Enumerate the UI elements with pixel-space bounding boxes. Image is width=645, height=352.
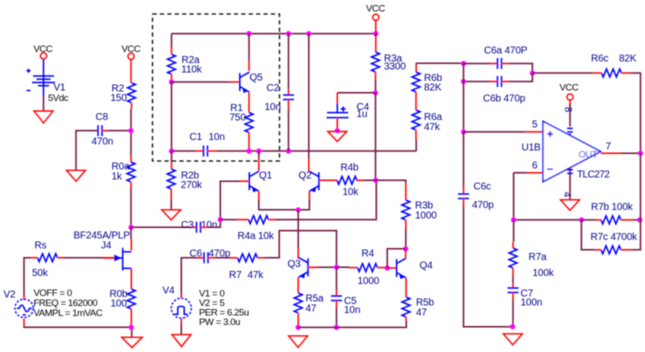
wire C7 to ground xyxy=(512,293,514,327)
value 110k xyxy=(181,65,202,76)
svg-text:1000: 1000 xyxy=(415,210,437,221)
svg-text:10n: 10n xyxy=(201,220,217,231)
label OUT xyxy=(579,149,598,159)
value 10n (C2) xyxy=(265,102,281,113)
op-amp V- pin xyxy=(567,167,573,200)
value 1u xyxy=(357,109,368,120)
svg-text:Q5: Q5 xyxy=(250,73,264,84)
value 750 xyxy=(230,112,247,123)
label C5 xyxy=(344,296,357,307)
svg-text:R7: R7 xyxy=(229,270,242,281)
wire C2 bottom xyxy=(288,100,290,152)
wire VCC to rail xyxy=(375,20,377,33)
node Q3 base/R4/C5 xyxy=(334,265,339,270)
wire pin6 node rail xyxy=(514,219,582,221)
resistor R5a xyxy=(294,293,302,313)
resistor R0a xyxy=(127,155,135,182)
svg-text:110k: 110k xyxy=(181,65,202,76)
label C6c xyxy=(474,182,491,193)
wire C5 to rail xyxy=(336,301,338,328)
svg-text:V4: V4 xyxy=(163,285,176,296)
label C6a 470P xyxy=(484,45,528,56)
wire C1 left stub xyxy=(196,150,204,152)
label Rs xyxy=(35,240,47,251)
node rail/C2 xyxy=(286,31,291,36)
resistor R4 xyxy=(358,264,378,272)
label C3 xyxy=(181,220,194,231)
wire Q4 collector xyxy=(405,249,407,258)
node C2/rail2 xyxy=(286,148,291,153)
wire V1 to ground xyxy=(43,96,45,111)
svg-text:R6c: R6c xyxy=(591,53,608,64)
wire Q3 emitter to R5a xyxy=(297,277,299,293)
resistor R3b xyxy=(402,200,410,220)
wire R0a to drain node xyxy=(130,182,132,227)
wire V2 to Rs xyxy=(24,258,38,301)
svg-text:1u: 1u xyxy=(357,109,368,120)
svg-text:6: 6 xyxy=(532,161,538,172)
wire pin5 xyxy=(464,131,544,133)
wire cap column xyxy=(463,64,465,132)
svg-text:47k: 47k xyxy=(424,122,441,133)
resistor Rs xyxy=(38,254,58,262)
node bottom-left rail xyxy=(129,325,134,330)
svg-text:C6c: C6c xyxy=(474,182,491,193)
pin number 6 xyxy=(532,161,538,172)
svg-text:R7b 100k: R7b 100k xyxy=(591,202,634,213)
wire R3b to node xyxy=(405,220,407,249)
wire V4 to ground xyxy=(180,318,182,334)
wire C6c to bottom xyxy=(464,199,513,327)
wire R6c to output column xyxy=(622,73,641,153)
label R4b xyxy=(341,162,359,173)
svg-text:50k: 50k xyxy=(32,268,49,279)
label R5a xyxy=(306,294,324,305)
label C7 xyxy=(521,289,534,300)
node R7b/R7c right xyxy=(637,217,642,222)
svg-text:10n: 10n xyxy=(265,102,281,113)
svg-text:C2: C2 xyxy=(267,83,280,94)
svg-text:PW = 3.0u: PW = 3.0u xyxy=(199,317,240,328)
pin number 4 xyxy=(561,192,572,198)
node diff-pair emitters xyxy=(296,207,301,212)
value V2 = 5 xyxy=(199,298,224,309)
node C3/R4a/Q1-base xyxy=(218,217,223,222)
resistor R3a xyxy=(372,34,380,93)
svg-text:470n: 470n xyxy=(92,137,114,148)
wire Q1 base xyxy=(220,181,249,219)
value 270k xyxy=(181,180,203,191)
ground (C7) xyxy=(503,334,522,345)
wire V4 to C6 xyxy=(181,258,204,298)
value 470n xyxy=(92,137,114,148)
wire L to R3b node xyxy=(387,249,405,268)
wire C1 right stub xyxy=(208,150,217,152)
resistor R1 xyxy=(245,113,253,133)
capacitor C7 xyxy=(508,288,519,293)
svg-text:47: 47 xyxy=(416,307,427,318)
svg-text:Q1: Q1 xyxy=(259,171,273,182)
label U1B xyxy=(522,142,541,153)
svg-text:R4b: R4b xyxy=(341,162,359,173)
value 47k (R6a) xyxy=(424,122,441,133)
wire output xyxy=(601,152,641,154)
node rail2 left xyxy=(169,148,174,153)
node R3a/C4 xyxy=(373,90,378,95)
label TLC272 xyxy=(577,169,610,180)
label J4 xyxy=(101,240,112,251)
ground (R0b) xyxy=(122,337,143,347)
wire R6b to cap column xyxy=(416,62,463,64)
power net VCC (top) xyxy=(366,4,385,21)
svg-text:8: 8 xyxy=(562,107,573,113)
svg-text:Q4: Q4 xyxy=(420,260,434,271)
svg-text:C6a 470P: C6a 470P xyxy=(484,45,528,56)
svg-text:R4a 10k: R4a 10k xyxy=(238,231,275,242)
svg-text:TLC272: TLC272 xyxy=(577,169,610,180)
power net VCC (U1B) xyxy=(560,83,579,101)
svg-text:5Vdc: 5Vdc xyxy=(48,93,69,104)
capacitor C8 xyxy=(98,125,102,136)
label R3a xyxy=(384,54,402,65)
value 47 (R5a) xyxy=(306,303,317,314)
svg-text:V2: V2 xyxy=(4,289,17,300)
node pin5 tap xyxy=(461,129,466,134)
ground (R5a) xyxy=(289,336,308,348)
svg-text:VAMPL = 1mVAC: VAMPL = 1mVAC xyxy=(34,308,103,319)
transistor Q5 xyxy=(240,72,250,93)
value 10n (C1) xyxy=(209,132,225,143)
capacitor C6 xyxy=(204,252,208,263)
wire bottom mid rail xyxy=(298,321,406,327)
svg-text:R7c 4700k: R7c 4700k xyxy=(591,232,639,243)
label V2 xyxy=(4,289,17,300)
label R4 xyxy=(362,248,375,259)
label R7b 100k xyxy=(591,202,634,213)
wire Q3 base xyxy=(308,266,337,268)
value 100 (R0b) xyxy=(111,299,128,310)
node J4 drain xyxy=(128,225,133,230)
resistor R6a xyxy=(412,110,420,130)
resistor R6c xyxy=(602,69,622,77)
dashed boundary box xyxy=(153,14,280,161)
resistor R7b xyxy=(601,216,621,224)
value 10n (C3) xyxy=(201,220,217,231)
svg-text:82K: 82K xyxy=(619,53,637,64)
value PER = 6.25u xyxy=(199,308,249,319)
value 470p (C6c) xyxy=(472,200,494,211)
svg-text:3300: 3300 xyxy=(384,62,406,73)
svg-text:100k: 100k xyxy=(533,268,555,279)
wire V2 to bottom rail xyxy=(24,319,131,328)
wire pin6 node to R7a xyxy=(512,220,515,248)
wire Q5 collector xyxy=(248,34,250,71)
wire C6b left xyxy=(464,81,498,83)
transistor Q2 xyxy=(309,171,319,192)
svg-text:82K: 82K xyxy=(424,83,442,94)
svg-text:C6b 470p: C6b 470p xyxy=(483,94,526,105)
svg-text:VCC: VCC xyxy=(560,83,579,94)
wire Q2 emitter to node xyxy=(298,191,309,210)
battery V1 xyxy=(27,59,56,96)
wire R7b right xyxy=(621,219,641,221)
node R4/Q4 base xyxy=(385,265,390,270)
ground (R2b) xyxy=(162,210,181,220)
wire C6b right xyxy=(502,73,533,82)
source V2 xyxy=(15,299,33,317)
wire R6b top xyxy=(415,63,417,72)
ground (C8) xyxy=(67,170,86,181)
op-amp V+ pin xyxy=(567,100,573,136)
svg-text:470p: 470p xyxy=(472,200,494,211)
wire drain to C3 xyxy=(131,226,197,228)
node C6a/C6b right xyxy=(530,70,535,75)
capacitor C3 xyxy=(197,222,201,233)
label R2b xyxy=(181,170,199,181)
wire source to R0b xyxy=(130,268,132,289)
label R2 xyxy=(112,83,125,94)
value 1000 (R3b) xyxy=(415,210,437,221)
label R1 xyxy=(230,103,243,114)
label C2 xyxy=(267,83,280,94)
label C4 xyxy=(357,102,370,113)
label C6 xyxy=(190,248,203,259)
node C6a left xyxy=(461,61,466,66)
wire C4 top xyxy=(337,93,375,113)
wire C2 top xyxy=(288,34,290,95)
value VOFF = 0 xyxy=(34,288,72,299)
wire R4b to node xyxy=(357,179,376,181)
label Q3 xyxy=(288,259,302,270)
svg-text:47k: 47k xyxy=(248,270,265,281)
svg-text:7: 7 xyxy=(606,142,612,153)
wire C8 left to ground xyxy=(76,131,98,170)
wire C4 to ground xyxy=(336,118,338,131)
node C6b left xyxy=(461,79,466,84)
svg-text:10n: 10n xyxy=(344,305,360,316)
resistor R2 xyxy=(128,83,136,103)
node output/feedback xyxy=(638,151,643,156)
node C7/C6c/ground xyxy=(510,324,515,329)
value 10n (C5) xyxy=(344,305,360,316)
wire C3 to node xyxy=(201,220,221,228)
svg-text:Rs: Rs xyxy=(35,240,47,251)
wire C6a left xyxy=(464,63,498,65)
wire R5b to rail xyxy=(405,317,407,321)
node R3b/Q4 xyxy=(403,246,408,251)
wire output column lower xyxy=(640,153,642,220)
capacitor C1 xyxy=(204,146,208,157)
transistor Q4 xyxy=(397,258,407,279)
capacitor C4 xyxy=(327,107,349,118)
node C4/ground xyxy=(335,128,340,133)
svg-text:10k: 10k xyxy=(343,187,360,198)
wire VCC to R2 xyxy=(130,59,132,82)
label Q2 xyxy=(299,171,313,182)
value PW = 3.0u xyxy=(199,317,240,328)
wire drain xyxy=(130,227,132,250)
wire node to C5 xyxy=(336,267,338,296)
ground (U1B) xyxy=(561,200,580,211)
wire R2a to rail bottom xyxy=(171,82,173,151)
source V4 xyxy=(171,298,191,318)
wire R4a to R4b node xyxy=(269,180,377,219)
wire column to C6c xyxy=(463,132,465,194)
value 47k (R7) xyxy=(248,270,265,281)
resistor R7a xyxy=(509,248,517,268)
label Q4 xyxy=(420,260,434,271)
value 1000 (R4) xyxy=(358,276,380,287)
wire node to R4a xyxy=(220,219,248,221)
svg-text:5: 5 xyxy=(532,120,538,131)
svg-text:C3: C3 xyxy=(181,220,194,231)
wire C6 to R7 xyxy=(208,257,238,259)
node R1/rail2 xyxy=(246,148,251,153)
label Q5 xyxy=(250,73,264,84)
wire Q2 collector xyxy=(308,34,310,172)
value 50k xyxy=(32,268,49,279)
label V4 xyxy=(163,285,176,296)
wire R2 to node xyxy=(130,103,133,155)
label R7c 4700k xyxy=(591,232,639,243)
wire node to R3b xyxy=(376,180,406,200)
svg-text:V1: V1 xyxy=(54,83,67,94)
pin number 5 xyxy=(532,120,538,131)
wire Rs to gate xyxy=(58,257,117,259)
svg-text:VCC: VCC xyxy=(366,4,385,15)
resistor R4b xyxy=(337,176,357,184)
value 5Vdc xyxy=(48,93,69,104)
wire rail2 right segment xyxy=(217,150,417,152)
resistor R7 xyxy=(238,254,258,262)
wire R7c left leg xyxy=(581,220,601,250)
ground (C4) xyxy=(328,132,347,142)
label R7 xyxy=(229,270,242,281)
label R0b xyxy=(110,289,128,300)
wire R7c right leg xyxy=(621,220,641,250)
label R5b xyxy=(416,298,434,309)
wire caps to R6c xyxy=(532,72,601,74)
wire Q4 emitter to R5b xyxy=(405,278,407,297)
capacitor C5 xyxy=(331,296,342,301)
wire Q5 base xyxy=(172,81,240,83)
label R6c xyxy=(591,53,608,64)
wire R6a bottom xyxy=(415,130,417,151)
label R7a xyxy=(529,252,547,263)
svg-text:47: 47 xyxy=(306,303,317,314)
wire R6b-R6a junction xyxy=(415,92,417,110)
resistor R7c xyxy=(601,246,621,254)
label R4a 10k xyxy=(238,231,275,242)
wire pin6 xyxy=(514,173,543,220)
node R3a/R4b/R3b/R4a xyxy=(373,178,378,183)
svg-text:4: 4 xyxy=(561,192,572,198)
svg-text:10n: 10n xyxy=(209,132,225,143)
node Q1 collector/rail2 xyxy=(256,148,261,153)
ground (V1) xyxy=(34,111,53,123)
wire R7b left xyxy=(581,219,601,221)
wire R3a to R4b node xyxy=(375,93,377,181)
value 100n (C7) xyxy=(521,298,543,309)
node rail/Q5 collector xyxy=(246,31,251,36)
power net VCC (V1) xyxy=(34,44,53,59)
svg-text:C8: C8 xyxy=(96,112,109,123)
node rail/VCC/R3a xyxy=(373,31,378,36)
wire R0b to ground xyxy=(130,309,132,337)
label R6b xyxy=(424,73,442,84)
svg-text:C6: C6 xyxy=(190,248,203,259)
wire R5a to rail xyxy=(297,313,299,327)
wire Q2 base to R4b xyxy=(319,179,337,181)
capacitor C6a xyxy=(498,58,502,69)
wire C6a right xyxy=(502,64,533,74)
wire Q1 collector xyxy=(258,151,260,171)
wire VCC top rail xyxy=(172,33,376,35)
svg-text:C1: C1 xyxy=(190,132,203,143)
value 150 xyxy=(111,93,128,104)
svg-text:Q3: Q3 xyxy=(288,259,302,270)
node rail/Q2 collector xyxy=(306,31,311,36)
capacitor C6b xyxy=(498,76,502,87)
svg-text:1000: 1000 xyxy=(358,276,380,287)
label V1 xyxy=(54,83,67,94)
node R5a/rail/ground xyxy=(296,325,301,330)
label BF245A/PLP xyxy=(74,230,131,241)
svg-text:1k: 1k xyxy=(112,171,123,182)
label R0a xyxy=(112,162,130,173)
wire R7a to C7 xyxy=(512,268,514,288)
wire rail2 left segment xyxy=(172,150,196,152)
power net VCC (R2) xyxy=(122,44,141,60)
value 82K (R6b) xyxy=(424,83,442,94)
op-amp U1B xyxy=(543,121,601,181)
wire R1 to rail2 xyxy=(248,133,250,152)
value 10k (R4b) xyxy=(343,187,360,198)
capacitor C6c xyxy=(458,194,469,199)
pin number 8 xyxy=(562,107,573,113)
resistor R2b xyxy=(167,151,175,210)
value 470p (C6) xyxy=(209,248,231,259)
svg-text:Q2: Q2 xyxy=(299,171,313,182)
value 100k (R7a) xyxy=(533,268,555,279)
label C8 xyxy=(96,112,109,123)
node pin6/R7a xyxy=(511,217,516,222)
value 47 (R5b) xyxy=(416,307,427,318)
svg-text:270k: 270k xyxy=(181,180,203,191)
label R3b xyxy=(415,201,433,212)
value 1k xyxy=(112,171,123,182)
node R7b/R7c left xyxy=(579,217,584,222)
svg-text:OUT: OUT xyxy=(579,149,598,159)
value 3300 xyxy=(384,62,406,73)
wire Q3 collector xyxy=(297,210,299,259)
value FREQ = 162000 xyxy=(34,298,98,309)
wire node to R4 xyxy=(337,266,358,268)
resistor R0b xyxy=(127,289,135,309)
svg-text:150: 150 xyxy=(111,93,128,104)
node R2a/Q5 base xyxy=(169,79,174,84)
wire R7 to Q3 base column xyxy=(258,231,337,268)
capacitor C2 xyxy=(283,95,294,100)
label C1 xyxy=(190,132,203,143)
node C5/rail xyxy=(334,325,339,330)
svg-text:750: 750 xyxy=(230,112,247,123)
junction C8/R2/R0a xyxy=(128,128,133,133)
label R6a xyxy=(424,112,442,123)
svg-text:R7a: R7a xyxy=(529,252,547,263)
resistor R6b xyxy=(412,72,420,92)
label C6b 470p xyxy=(483,94,526,105)
